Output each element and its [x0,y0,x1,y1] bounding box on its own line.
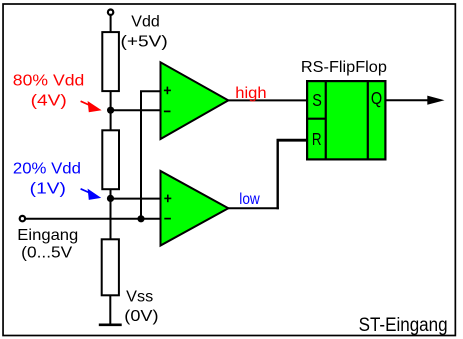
svg-text:Q: Q [371,88,382,108]
svg-text:Vss: Vss [126,288,153,305]
svg-text:ST-Eingang: ST-Eingang [359,315,448,336]
svg-text:(+5V): (+5V) [121,33,168,50]
svg-text:20% Vdd: 20% Vdd [13,161,81,178]
svg-text:Eingang: Eingang [17,227,78,244]
svg-text:RS-FlipFlop: RS-FlipFlop [301,59,387,76]
svg-text:Vdd: Vdd [131,13,159,30]
svg-text:80% Vdd: 80% Vdd [13,73,85,90]
svg-text:R: R [312,129,322,149]
svg-text:S: S [312,90,322,110]
svg-text:high: high [235,85,266,102]
svg-text:(1V): (1V) [30,180,66,197]
svg-text:low: low [239,191,260,208]
svg-text:(0...5V: (0...5V [21,245,72,262]
svg-text:(0V): (0V) [124,308,158,325]
svg-text:(4V): (4V) [31,92,67,109]
